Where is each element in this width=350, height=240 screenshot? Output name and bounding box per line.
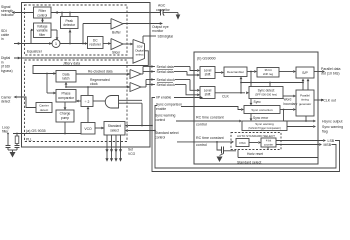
- svg-text:VCO: VCO: [84, 127, 92, 131]
- wire charge pump to loop filter node: [64, 122, 66, 134]
- svg-text:Sync warning: Sync warning: [155, 114, 175, 118]
- wire mux select control SDI/digital: [142, 36, 144, 43]
- svg-text:in: in: [1, 37, 4, 41]
- wire clock to data latch: [65, 83, 67, 87]
- svg-text:PCLK out: PCLK out: [321, 98, 336, 102]
- svg-text:generator: generator: [299, 102, 311, 106]
- wire S/P strobe lines: [302, 80, 304, 91]
- wire serial data inverted row 2: [150, 71, 155, 73]
- wire jittery data from mux to data latch: [33, 51, 148, 74]
- svg-text:latch: latch: [63, 77, 70, 81]
- svg-text:control: control: [37, 13, 47, 17]
- svg-text:Serial data: Serial data: [157, 70, 174, 74]
- svg-text:Loop: Loop: [2, 125, 10, 129]
- svg-text:CLK: CLK: [222, 94, 229, 98]
- wire serial clock split: [141, 86, 146, 88]
- svg-text:RC time constant: RC time constant: [196, 116, 224, 120]
- wire VVF output to summing node: [51, 29, 57, 31]
- svg-text:÷ 2: ÷ 2: [85, 100, 90, 104]
- box Charge pump: [56, 110, 74, 122]
- svg-text:flag: flag: [322, 129, 328, 133]
- svg-text:(b) GS9000: (b) GS9000: [197, 57, 216, 61]
- wire serial clock inverted row 4: [150, 84, 155, 86]
- wire clock up to descrambler: [240, 78, 242, 93]
- ground for AGC capacitor: [176, 15, 181, 20]
- capacitor AGC: [160, 10, 162, 16]
- op-amp buffer: [111, 19, 123, 30]
- box VCO: [81, 123, 95, 135]
- svg-text:pump: pump: [61, 116, 69, 120]
- mux SDI/Digital select: [133, 40, 145, 64]
- svg-text:select: select: [110, 128, 119, 132]
- wire horiz reset bus: [237, 150, 239, 158]
- wire level shift 2 CLK line: [215, 92, 245, 94]
- svg-text:select: select: [136, 53, 144, 57]
- set VCO pins: [106, 135, 108, 159]
- svg-text:Set: Set: [128, 148, 133, 152]
- ground loop filter: [8, 149, 17, 151]
- wire data tap down to sync detect: [250, 72, 252, 83]
- svg-text:capacitor: capacitor: [156, 8, 171, 12]
- svg-text:indicator: indicator: [1, 13, 15, 17]
- svg-text:Standard select: Standard select: [155, 131, 179, 135]
- wire tap to VVF input: [30, 30, 32, 44]
- svg-text:Parallel data: Parallel data: [321, 67, 341, 71]
- box Data latch: [56, 71, 76, 83]
- PLL dashed enclosure: [25, 60, 128, 142]
- svg-text:control: control: [196, 123, 207, 127]
- wire VCO to divider: [87, 108, 89, 123]
- wire descrambler to shift reg: [247, 71, 254, 73]
- wire DC restorer to slicer: [103, 43, 111, 45]
- svg-text:Sync warning: Sync warning: [322, 125, 343, 129]
- box Level shift 1: [200, 67, 215, 79]
- op-amp slicer: [111, 39, 123, 50]
- wire MSB feedback loop: [155, 106, 336, 169]
- svg-text:Slicer: Slicer: [112, 51, 121, 55]
- svg-text:restorer: restorer: [90, 43, 102, 47]
- wire PCLK out: [314, 99, 321, 101]
- wire RC time constant row 1: [176, 120, 239, 122]
- wire carrier detect output: [17, 97, 36, 108]
- svg-text:Sync correction: Sync correction: [251, 108, 273, 112]
- svg-text:AUTO STANDARD SELECT: AUTO STANDARD SELECT: [237, 134, 275, 138]
- wire sync down: [250, 99, 252, 105]
- svg-text:shift reg: shift reg: [263, 72, 274, 76]
- box Filter control: [34, 7, 52, 18]
- capacitor loop filter C1: [7, 134, 9, 146]
- wire divider to phase comparator: [77, 100, 81, 102]
- dashed box AUTO STANDARD SELECT: [231, 133, 281, 150]
- wire OSC to counter: [249, 142, 258, 144]
- svg-text:shift: shift: [205, 73, 211, 77]
- box OSC: [236, 139, 249, 147]
- box Voltage variable filter: [34, 23, 52, 38]
- svg-text:filter: filter: [39, 33, 46, 37]
- svg-text:control: control: [155, 136, 165, 140]
- svg-text:Horiz reset: Horiz reset: [247, 152, 263, 156]
- svg-text:enable: enable: [156, 107, 166, 111]
- box Sync warning comparator: [242, 121, 287, 131]
- svg-text:Output eye: Output eye: [152, 25, 169, 29]
- wire RC time constant row 2: [177, 141, 231, 143]
- wire LSB feedback loop: [152, 98, 340, 172]
- wire sync error down: [250, 114, 252, 121]
- wire counter reset stub: [267, 147, 269, 150]
- wire level shift 1 to descrambler: [215, 72, 221, 74]
- svg-text:Hsync output: Hsync output: [322, 119, 342, 123]
- svg-text:control: control: [155, 118, 165, 122]
- wire AGC line: [51, 12, 161, 14]
- box Carrier detect: [36, 103, 52, 113]
- svg-text:Descrambler: Descrambler: [227, 70, 244, 74]
- svg-text:RC time constant: RC time constant: [196, 136, 224, 140]
- ground transistor: [220, 154, 224, 156]
- box DC restorer: [88, 37, 104, 49]
- resistor loop filter R1: [16, 134, 18, 137]
- svg-text:filter: filter: [2, 130, 9, 134]
- wire sync correction to parallel timing: [280, 109, 293, 111]
- wire counter LSB output: [276, 140, 323, 142]
- svg-text:comparator: comparator: [58, 96, 75, 100]
- wire Hsync output: [283, 110, 285, 122]
- svg-text:(Schmitt Trigger Comparator): (Schmitt Trigger Comparator): [248, 127, 281, 130]
- svg-text:Sync error: Sync error: [253, 116, 269, 120]
- wire shift reg to S/P: [279, 71, 293, 73]
- box S/P: [296, 67, 314, 78]
- svg-text:(3FF 000 000 hex): (3FF 000 000 hex): [255, 93, 277, 97]
- svg-text:Standard select: Standard select: [237, 161, 261, 165]
- box Standard select: [104, 122, 125, 136]
- wire buffer output eye monitor: [123, 23, 160, 25]
- wire divider to gate: [93, 100, 105, 102]
- wire sync warning flag out: [287, 126, 313, 128]
- summing node: [52, 40, 60, 48]
- svg-text:SDI/digital: SDI/digital: [158, 35, 174, 39]
- wire tap up to buffer: [82, 24, 84, 44]
- box Sync correction: [244, 106, 280, 114]
- wire counter MSB output: [276, 144, 319, 146]
- box Sync detect: [249, 87, 283, 99]
- wire regenerated clock rail: [66, 86, 130, 88]
- equalizer dashed enclosure: [25, 5, 128, 55]
- wire serial data row 1: [150, 66, 155, 68]
- box divide by 2: [81, 96, 93, 107]
- svg-text:Sync comparison: Sync comparison: [156, 103, 182, 107]
- svg-text:AGC: AGC: [158, 3, 166, 7]
- box Descrambler: [224, 67, 247, 77]
- wire SDI cable in main path: [14, 43, 52, 45]
- wire summing node to DC restorer: [60, 43, 88, 45]
- svg-text:Serial clock: Serial clock: [157, 83, 176, 87]
- box 4 bit counter: [261, 138, 276, 147]
- wire phase comparator to charge pump: [64, 102, 66, 109]
- wire serial data split: [141, 73, 143, 75]
- svg-text:Sync: Sync: [254, 100, 262, 104]
- svg-text:MSB: MSB: [324, 143, 332, 147]
- box Phase comparator: [56, 90, 76, 103]
- chip U2 GS9000 descrambler outline: [194, 52, 318, 164]
- svg-text:control: control: [196, 143, 207, 147]
- wire signal strength indicator: [15, 12, 34, 14]
- box Level shift 2: [200, 87, 215, 99]
- capacitor loop filter C2: [15, 145, 20, 147]
- wire gate double output to feedback node: [119, 99, 143, 101]
- wire peak detector input from main path: [69, 30, 71, 44]
- svg-text:S/P: S/P: [302, 71, 308, 75]
- svg-text:Jittery data: Jittery data: [63, 61, 80, 65]
- svg-text:Equalizer: Equalizer: [27, 50, 43, 54]
- svg-text:clock: clock: [90, 82, 98, 86]
- box 36 bit shift reg: [257, 68, 279, 78]
- box Parallel timing generator: [296, 90, 314, 116]
- svg-text:detect: detect: [40, 108, 49, 112]
- svg-text:Sync detect: Sync detect: [258, 88, 275, 92]
- svg-text:Re-clocked data: Re-clocked data: [88, 70, 113, 74]
- wire word boundary: [283, 95, 293, 97]
- wire S/P parallel data out: [314, 71, 322, 73]
- wire VCO to standard select: [95, 127, 104, 129]
- svg-text:monitor: monitor: [152, 29, 164, 33]
- transistor Q1 RC discharge: [217, 142, 221, 150]
- svg-text:(a) GS 9035: (a) GS 9035: [26, 129, 46, 133]
- chip U1 GS9035 serial digital receiver outline: [22, 3, 151, 148]
- gate clock D element: [105, 96, 118, 109]
- wire digital bypass input: [14, 57, 133, 59]
- wire slicer to mux: [123, 43, 133, 45]
- svg-text:detect: detect: [1, 100, 10, 104]
- svg-text:counter: counter: [264, 142, 273, 146]
- wire loop filter line to VCO: [13, 133, 81, 135]
- svg-text:I/P enable: I/P enable: [156, 96, 171, 100]
- svg-text:Sync warning: Sync warning: [255, 122, 274, 126]
- wire serial clock row 3: [150, 79, 155, 81]
- wire peak detector output up: [61, 13, 63, 17]
- svg-text:OSC: OSC: [239, 141, 246, 145]
- svg-text:boundary: boundary: [284, 102, 298, 106]
- op-amp serial clock output buffer: [130, 83, 141, 92]
- svg-text:PLL: PLL: [26, 138, 32, 142]
- svg-text:Serial clock: Serial clock: [157, 78, 176, 82]
- svg-text:shift: shift: [205, 93, 211, 97]
- wire re-clocked data: [76, 73, 130, 75]
- svg-text:detector: detector: [63, 23, 76, 27]
- svg-text:Carrier: Carrier: [1, 95, 12, 99]
- svg-text:Buffer: Buffer: [112, 31, 122, 35]
- wire I/P enable: [174, 97, 200, 99]
- wire rail down to divider: [87, 87, 89, 96]
- svg-text:VCO: VCO: [128, 152, 136, 156]
- svg-text:Serial data: Serial data: [157, 65, 174, 69]
- svg-text:bypass): bypass): [1, 69, 13, 73]
- op-amp serial data output buffer: [130, 70, 141, 79]
- wire sync comparison enable input: [181, 107, 241, 110]
- wire filter control to VVF: [42, 18, 44, 22]
- box Peak detector: [61, 17, 79, 29]
- svg-text:out (10 bits): out (10 bits): [321, 72, 339, 76]
- wire data to phase comparator: [46, 74, 48, 94]
